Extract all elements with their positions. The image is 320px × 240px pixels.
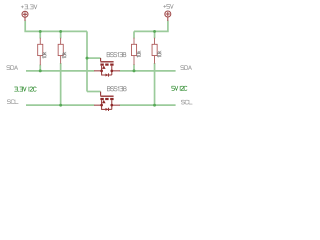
label BSS138 Q2 bbox=[107, 87, 126, 91]
node junction dot rail R1 bbox=[39, 30, 42, 33]
label 10k R2 bbox=[62, 52, 66, 58]
wire Q2 gate bbox=[87, 91, 101, 93]
transistor Q1 BSS138 bbox=[94, 58, 120, 77]
wire R1 top bbox=[39, 31, 41, 38]
node junction dot SCL R4 bbox=[153, 104, 156, 107]
label 10k R1 bbox=[42, 52, 46, 58]
wire R3 top bbox=[133, 31, 135, 38]
label SCL right bbox=[181, 100, 192, 104]
power +3.3V symbol bbox=[22, 11, 28, 21]
resistor R3 bbox=[132, 38, 137, 65]
node junction dot SDA R3 bbox=[133, 69, 136, 72]
node junction dot gate Q1 bbox=[86, 57, 89, 60]
resistor R4 bbox=[152, 38, 157, 64]
label SDA left bbox=[7, 66, 18, 70]
node junction dot SCL R2 bbox=[59, 104, 62, 107]
label SCL left bbox=[7, 100, 18, 104]
wire R3 bottom bbox=[133, 64, 135, 70]
wire SDA left bbox=[26, 70, 94, 72]
power +5V symbol bbox=[165, 11, 171, 21]
wire SCL right bbox=[120, 104, 176, 106]
resistor R1 bbox=[38, 38, 43, 65]
node junction dot rail R2 bbox=[59, 30, 62, 33]
label +5V bbox=[164, 4, 174, 8]
wire SCL left bbox=[26, 104, 94, 106]
label 3.3V I2C bbox=[15, 87, 37, 91]
wire gate feed vertical bbox=[86, 31, 88, 91]
transistor Q2 BSS138 bbox=[94, 92, 120, 111]
wire R4 top bbox=[154, 31, 156, 38]
label 10k R4 bbox=[157, 51, 161, 57]
node junction dot 5V rail R4 bbox=[153, 30, 156, 33]
label 5V I2C bbox=[172, 86, 187, 90]
label +3.3V bbox=[21, 5, 37, 9]
node junction dot SDA R1 bbox=[39, 69, 42, 72]
wire 3.3V rail bbox=[25, 21, 87, 32]
wire 5V rail bbox=[134, 21, 168, 32]
label 10k R3 bbox=[137, 51, 141, 57]
wire Q1 gate bbox=[87, 57, 101, 59]
wire R2 top bbox=[60, 31, 62, 38]
wire R2 bottom to SCL bbox=[60, 63, 62, 105]
wire R1 bottom bbox=[39, 65, 41, 71]
resistor R2 bbox=[58, 38, 63, 64]
wire R4 bottom to SCL bbox=[154, 63, 156, 105]
wire SDA right bbox=[120, 70, 176, 72]
label SDA right bbox=[181, 66, 192, 70]
label BSS138 Q1 bbox=[107, 52, 126, 56]
